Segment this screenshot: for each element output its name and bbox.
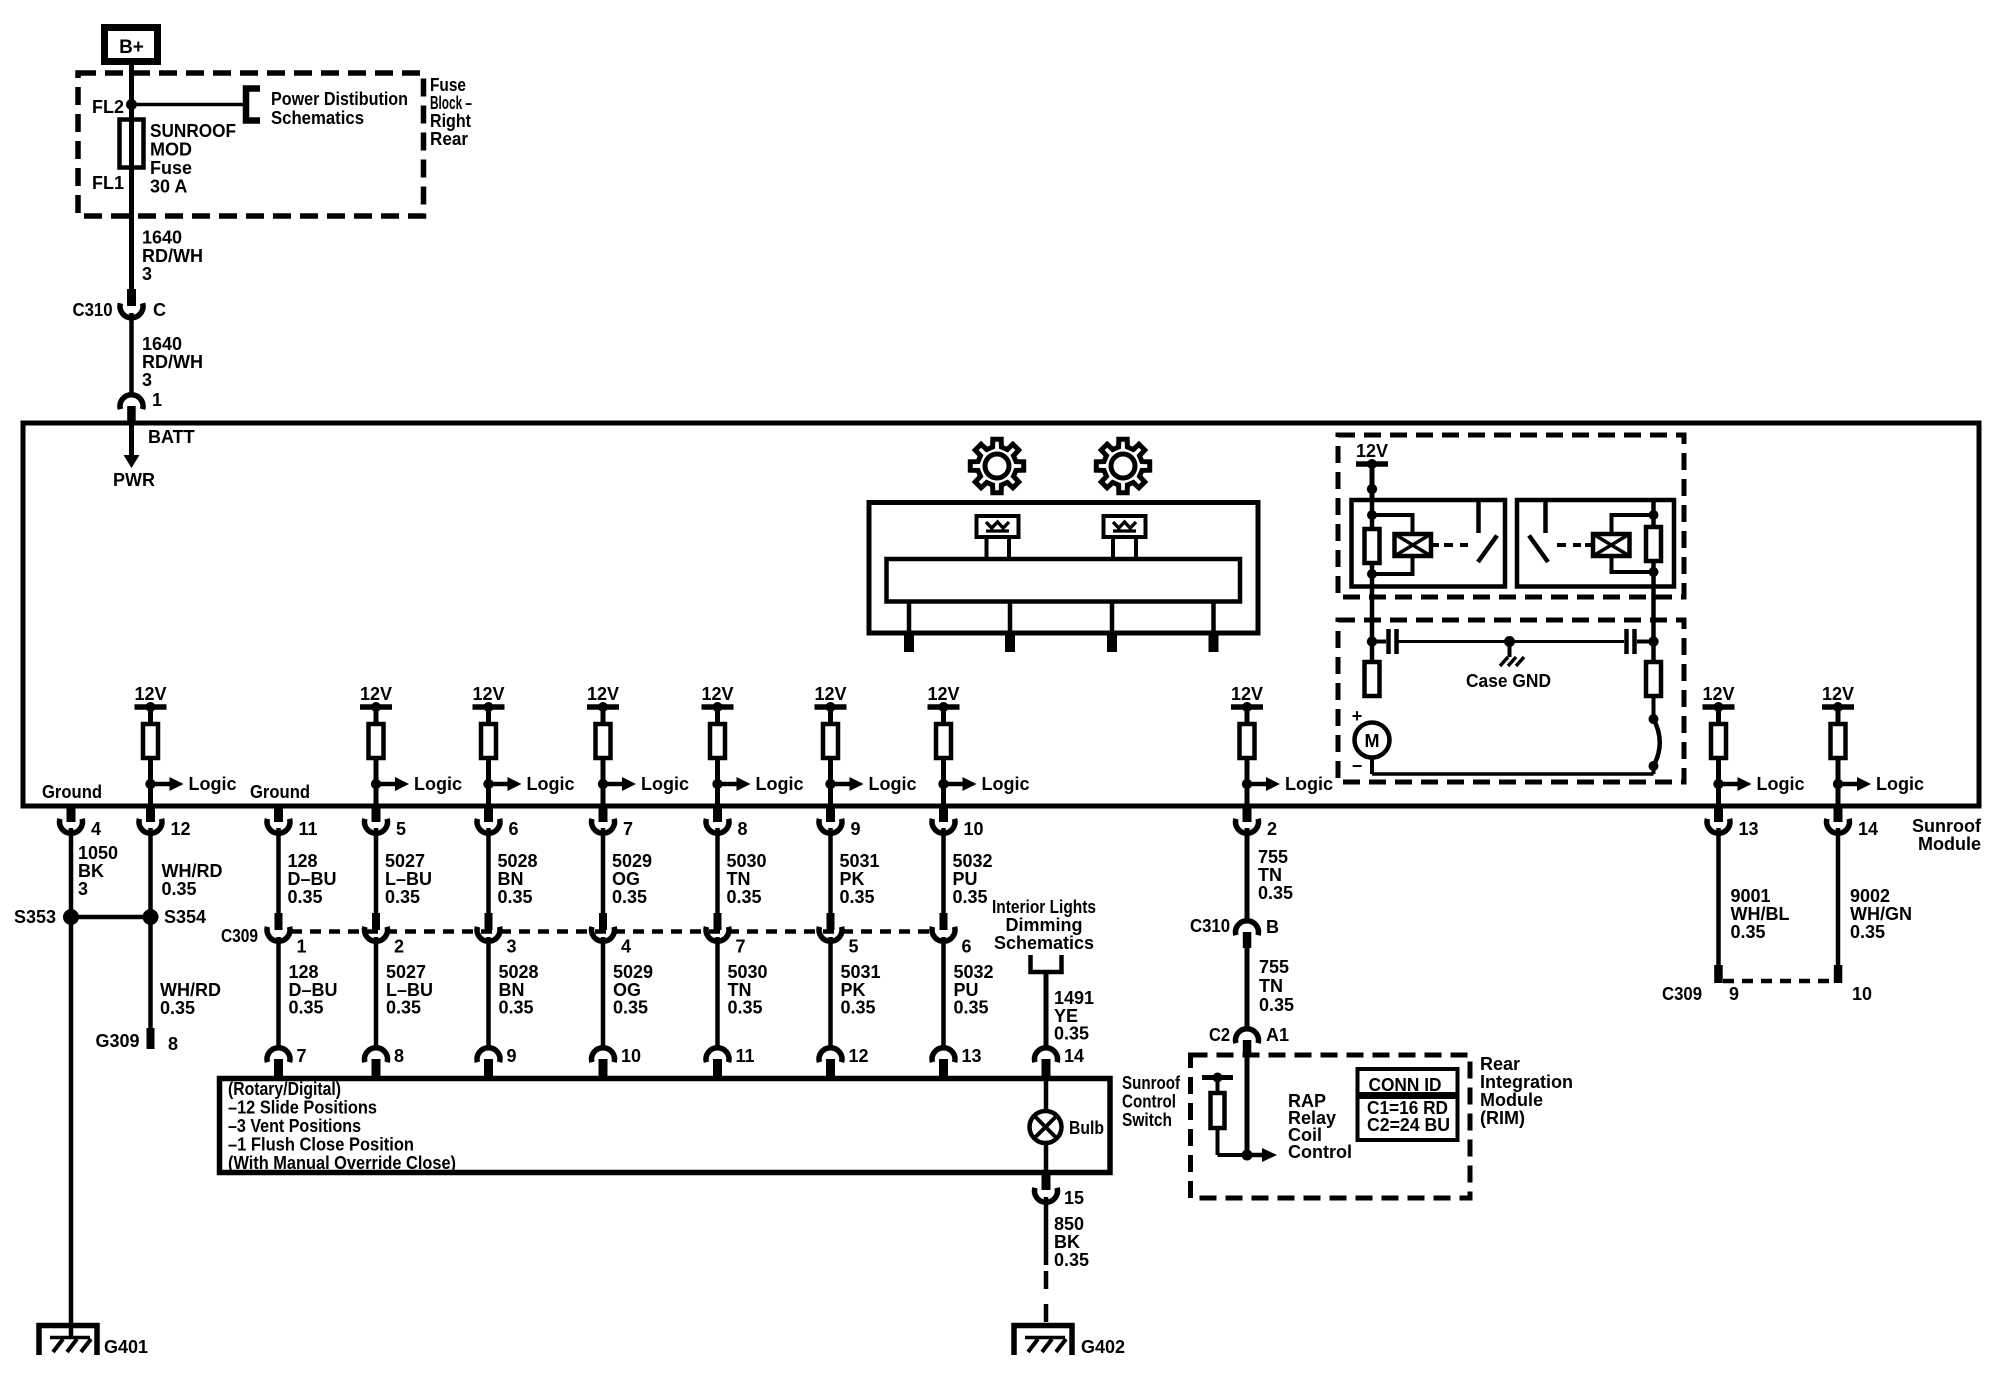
wire 5030 TN 0.35	[715, 828, 720, 914]
svg-text:12V: 12V	[1702, 684, 1734, 704]
motor return wire	[1372, 772, 1654, 776]
svg-text:BATT: BATT	[148, 427, 195, 447]
svg-text:4: 4	[621, 937, 631, 957]
svg-text:Logic: Logic	[189, 774, 237, 794]
svg-text:128: 128	[289, 962, 319, 982]
svg-text:BK: BK	[78, 861, 104, 881]
wire 128 D–BU 0.35 lower	[276, 937, 281, 1048]
wire 5032 PU 0.35	[941, 828, 946, 914]
module pin 4	[67, 806, 76, 822]
svg-text:(Rotary/Digital): (Rotary/Digital)	[228, 1079, 341, 1099]
bulb	[1030, 1111, 1062, 1143]
fuse block dashed box	[78, 73, 424, 216]
svg-text:C310: C310	[1190, 916, 1230, 936]
svg-text:Logic: Logic	[527, 774, 575, 794]
wire 128 D–BU 0.35	[276, 828, 281, 914]
svg-text:7: 7	[623, 819, 633, 839]
wire B+ to fuse block	[129, 65, 134, 121]
case ground node	[1504, 636, 1515, 647]
switch pin 10	[592, 1048, 615, 1063]
svg-text:14: 14	[1858, 819, 1878, 839]
wire 755 TN 0.35 lower	[1245, 948, 1250, 1029]
svg-text:0.35: 0.35	[385, 887, 420, 907]
wire to G401	[69, 917, 74, 1338]
sunroof motor assembly box	[869, 503, 1258, 634]
svg-text:Logic: Logic	[1876, 774, 1924, 794]
svg-text:WH/RD: WH/RD	[160, 980, 221, 1000]
svg-text:1050: 1050	[78, 843, 118, 863]
relay K2 coil circuit	[1651, 500, 1656, 587]
svg-text:Logic: Logic	[982, 774, 1030, 794]
svg-text:0.35: 0.35	[840, 887, 875, 907]
svg-text:Logic: Logic	[1757, 774, 1805, 794]
module pin 13	[1714, 806, 1723, 822]
off-page bracket interior lights	[1031, 955, 1062, 972]
svg-text:5032: 5032	[953, 851, 993, 871]
wire WH/RD 0.35 pin12	[148, 828, 153, 917]
svg-text:CONN ID: CONN ID	[1369, 1075, 1442, 1095]
svg-text:Ground: Ground	[250, 782, 310, 802]
wire 5027 L–BU 0.35	[374, 828, 379, 914]
svg-text:6: 6	[509, 819, 519, 839]
module pin 14	[1834, 806, 1843, 822]
relay K1 coil circuit	[1370, 500, 1375, 587]
svg-text:PK: PK	[840, 869, 865, 889]
svg-text:C310: C310	[73, 300, 113, 320]
svg-text:−: −	[1352, 756, 1363, 776]
svg-text:Schematics: Schematics	[994, 933, 1094, 953]
svg-text:TN: TN	[1259, 976, 1283, 996]
splice S354	[143, 909, 159, 925]
svg-text:0.35: 0.35	[612, 887, 647, 907]
connector C309 pin 7	[714, 913, 722, 930]
svg-text:12V: 12V	[472, 684, 504, 704]
svg-text:128: 128	[288, 851, 318, 871]
svg-text:Integration: Integration	[1480, 1072, 1573, 1092]
wire S354 to G309	[148, 917, 153, 1030]
svg-text:–3 Vent Positions: –3 Vent Positions	[228, 1116, 361, 1136]
svg-text:TN: TN	[1258, 865, 1282, 885]
wire 5031 PK 0.35	[828, 828, 833, 914]
svg-text:0.35: 0.35	[162, 879, 197, 899]
svg-text:Logic: Logic	[756, 774, 804, 794]
svg-text:12V: 12V	[360, 684, 392, 704]
wire 850 BK 0.35	[1044, 1197, 1049, 1265]
connector C310 pin B	[1236, 921, 1259, 936]
suppression capacitor left	[1372, 640, 1386, 644]
relay K2 box	[1517, 500, 1674, 587]
svg-text:Right: Right	[430, 111, 471, 131]
motor series resistor left	[1365, 662, 1380, 696]
svg-text:4: 4	[91, 819, 101, 839]
ground lead G309	[147, 1028, 155, 1049]
module pin 12	[146, 806, 155, 822]
svg-text:2: 2	[394, 937, 404, 957]
svg-text:8: 8	[394, 1046, 404, 1066]
svg-text:13: 13	[1739, 819, 1759, 839]
svg-text:–12 Slide Positions: –12 Slide Positions	[228, 1098, 377, 1118]
svg-text:Bulb: Bulb	[1069, 1118, 1104, 1138]
svg-text:C309: C309	[1662, 984, 1702, 1004]
svg-text:C309: C309	[221, 926, 258, 946]
svg-text:5028: 5028	[499, 962, 539, 982]
svg-text:9001: 9001	[1731, 886, 1771, 906]
svg-text:7: 7	[297, 1046, 307, 1066]
svg-text:PU: PU	[953, 869, 978, 889]
module pin 9	[826, 806, 835, 822]
wire 1491 YE 0.35	[1044, 974, 1049, 1048]
svg-text:BK: BK	[1054, 1232, 1080, 1252]
switch pin 12	[819, 1048, 842, 1063]
svg-text:1491: 1491	[1054, 988, 1094, 1008]
gear icon 1	[970, 439, 1023, 492]
svg-text:5032: 5032	[954, 962, 994, 982]
svg-text:8: 8	[168, 1034, 178, 1054]
connector C309 pin 10	[1834, 965, 1843, 983]
svg-text:1640: 1640	[142, 334, 182, 354]
switch pin 8	[365, 1048, 388, 1063]
svg-text:0.35: 0.35	[160, 998, 195, 1018]
assembly legs	[907, 602, 912, 634]
gear icon 2	[1096, 439, 1149, 492]
relay K1 linkage	[1444, 543, 1468, 547]
svg-text:2: 2	[1267, 819, 1277, 839]
motor circuit dashed box	[1338, 620, 1684, 782]
svg-text:12V: 12V	[701, 684, 733, 704]
svg-text:Ground: Ground	[42, 782, 102, 802]
svg-text:SUNROOF: SUNROOF	[150, 121, 236, 141]
Sunroof Control Switch box	[220, 1079, 1111, 1173]
svg-text:0.35: 0.35	[727, 887, 762, 907]
relay K2 coil	[1593, 534, 1630, 556]
wire 755 TN 0.35 upper	[1245, 828, 1250, 921]
svg-text:9002: 9002	[1850, 886, 1890, 906]
ground G401	[39, 1326, 97, 1356]
svg-text:Power Distibution: Power Distibution	[271, 89, 408, 109]
wire 1050 BK 3	[69, 828, 74, 917]
svg-text:RD/WH: RD/WH	[142, 246, 203, 266]
switch pin 7	[267, 1048, 290, 1063]
motor series resistor right	[1651, 587, 1656, 663]
svg-text:0.35: 0.35	[954, 998, 989, 1018]
relay K2 linkage	[1557, 543, 1581, 547]
svg-text:0.35: 0.35	[1259, 995, 1294, 1015]
svg-text:5: 5	[396, 819, 406, 839]
CONN ID table	[1358, 1069, 1458, 1140]
svg-text:RD/WH: RD/WH	[142, 352, 203, 372]
connector C309 pin 6	[940, 913, 948, 930]
wire FL2 to power distribution tap	[132, 103, 246, 107]
svg-text:L–BU: L–BU	[385, 869, 432, 889]
svg-text:12: 12	[171, 819, 191, 839]
svg-text:9: 9	[507, 1046, 517, 1066]
svg-text:–1 Flush Close Position: –1 Flush Close Position	[228, 1135, 414, 1155]
svg-text:12V: 12V	[814, 684, 846, 704]
connector C309 pin 3	[485, 913, 493, 930]
wire 5028 BN 0.35 lower	[486, 937, 491, 1048]
svg-text:BN: BN	[498, 869, 524, 889]
svg-text:10: 10	[964, 819, 984, 839]
wire S353 to S354	[71, 915, 151, 920]
svg-text:0.35: 0.35	[386, 998, 421, 1018]
connector C2 pin A1	[1236, 1029, 1259, 1044]
svg-text:12V: 12V	[1356, 441, 1388, 461]
svg-text:G402: G402	[1081, 1337, 1125, 1357]
module pin 7	[599, 806, 608, 822]
connector C309 pin 9	[1714, 965, 1723, 983]
svg-text:5027: 5027	[385, 851, 425, 871]
svg-text:C2: C2	[1209, 1025, 1230, 1045]
svg-text:13: 13	[962, 1046, 982, 1066]
wire 9002 WH/GN 0.35	[1836, 828, 1841, 966]
svg-text:0.35: 0.35	[499, 998, 534, 1018]
module pin 5	[372, 806, 381, 822]
svg-text:OG: OG	[612, 869, 640, 889]
svg-text:G309: G309	[95, 1031, 139, 1051]
relay assembly dashed box	[1338, 435, 1684, 597]
svg-text:C2=24 BU: C2=24 BU	[1367, 1115, 1450, 1135]
off-page bracket Power Distribution Schematics	[246, 89, 260, 121]
svg-text:0.35: 0.35	[1054, 1024, 1089, 1044]
C309 dashed mating line	[291, 929, 931, 934]
svg-text:0.35: 0.35	[1054, 1250, 1089, 1270]
svg-text:Fuse: Fuse	[150, 158, 192, 178]
svg-text:Module: Module	[1480, 1090, 1543, 1110]
svg-text:0.35: 0.35	[953, 887, 988, 907]
svg-text:S353: S353	[14, 907, 56, 927]
C309 right dashed mating line	[1723, 979, 1834, 984]
svg-text:Case GND: Case GND	[1466, 671, 1551, 691]
wire relay K1 to motor	[1370, 587, 1375, 663]
svg-text:0.35: 0.35	[1850, 922, 1885, 942]
svg-text:0.35: 0.35	[498, 887, 533, 907]
svg-text:Sunroof: Sunroof	[1912, 816, 1982, 836]
svg-text:FL2: FL2	[92, 97, 124, 117]
svg-text:WH/GN: WH/GN	[1850, 904, 1912, 924]
svg-text:S354: S354	[164, 907, 206, 927]
svg-text:12V: 12V	[927, 684, 959, 704]
module pin 11	[274, 806, 283, 822]
svg-text:WH/BL: WH/BL	[1731, 904, 1790, 924]
svg-text:7: 7	[736, 937, 746, 957]
svg-text:1640: 1640	[142, 228, 182, 248]
svg-text:M: M	[1365, 731, 1380, 751]
svg-text:TN: TN	[727, 869, 751, 889]
svg-text:5: 5	[849, 937, 859, 957]
relay K1 box	[1352, 500, 1506, 587]
connector C309 pin 5	[827, 913, 835, 930]
position sensor lamp 1	[977, 516, 1019, 537]
svg-text:3: 3	[142, 264, 152, 284]
wire bulb to pin15	[1044, 1142, 1049, 1173]
svg-text:(RIM): (RIM)	[1480, 1108, 1525, 1128]
switch pin 9	[477, 1048, 500, 1063]
RIM internal RAP circuit	[1245, 1056, 1250, 1155]
fuse FL1 SUNROOF MOD 30A	[129, 105, 134, 290]
slider bar	[887, 559, 1241, 602]
svg-text:12V: 12V	[587, 684, 619, 704]
wire 5031 PK 0.35 lower	[828, 937, 833, 1048]
wire pin14 to bulb	[1044, 1076, 1049, 1112]
svg-text:B: B	[1266, 917, 1279, 937]
connector C309 pin 1	[275, 913, 283, 930]
svg-text:Schematics: Schematics	[271, 108, 364, 128]
wire 5028 BN 0.35	[486, 828, 491, 914]
svg-text:0.35: 0.35	[841, 998, 876, 1018]
svg-text:5027: 5027	[386, 962, 426, 982]
module pin 2	[1243, 806, 1252, 822]
svg-text:11: 11	[299, 819, 318, 839]
svg-text:D–BU: D–BU	[288, 869, 337, 889]
svg-text:Module: Module	[1918, 834, 1981, 854]
svg-text:Control: Control	[1122, 1092, 1176, 1112]
svg-text:0.35: 0.35	[728, 998, 763, 1018]
svg-text:WH/RD: WH/RD	[162, 861, 223, 881]
svg-text:Control: Control	[1288, 1142, 1352, 1162]
svg-text:5029: 5029	[613, 962, 653, 982]
ground G402	[1014, 1326, 1072, 1356]
module pin 1 BATT	[120, 395, 143, 410]
svg-text:(With Manual Override Close): (With Manual Override Close)	[228, 1153, 456, 1173]
wire 5030 TN 0.35 lower	[715, 937, 720, 1048]
svg-text:9: 9	[1729, 984, 1739, 1004]
svg-text:5028: 5028	[498, 851, 538, 871]
svg-text:C: C	[153, 300, 166, 320]
thermal protector	[1649, 714, 1659, 724]
svg-text:14: 14	[1064, 1046, 1084, 1066]
RAP Relay Coil Control arrow	[1247, 1153, 1263, 1158]
svg-text:5029: 5029	[612, 851, 652, 871]
svg-text:9: 9	[851, 819, 861, 839]
svg-text:6: 6	[962, 937, 972, 957]
svg-text:11: 11	[736, 1046, 755, 1066]
wire 5027 L–BU 0.35 lower	[374, 937, 379, 1048]
svg-text:B+: B+	[119, 37, 144, 58]
svg-text:MOD: MOD	[150, 140, 192, 160]
relay K1 coil	[1395, 534, 1432, 556]
module pin 6	[484, 806, 493, 822]
svg-text:1: 1	[297, 937, 307, 957]
svg-text:12V: 12V	[134, 684, 166, 704]
splice S353	[63, 909, 79, 925]
svg-text:850: 850	[1054, 1214, 1084, 1234]
wire 5032 PU 0.35 lower	[941, 937, 946, 1048]
svg-text:755: 755	[1259, 957, 1289, 977]
svg-text:Block –: Block –	[430, 93, 472, 113]
svg-text:Rear: Rear	[1480, 1054, 1520, 1074]
svg-text:0.35: 0.35	[289, 998, 324, 1018]
svg-text:755: 755	[1258, 847, 1288, 867]
svg-text:1: 1	[152, 390, 162, 410]
svg-text:10: 10	[621, 1046, 641, 1066]
wire 5029 OG 0.35	[601, 828, 606, 914]
switch pin 13	[932, 1048, 955, 1063]
svg-text:Switch: Switch	[1122, 1110, 1172, 1130]
svg-text:12V: 12V	[1231, 684, 1263, 704]
svg-text:8: 8	[738, 819, 748, 839]
switch pin 14	[1035, 1048, 1058, 1063]
connector C309 pin 4	[599, 913, 607, 930]
relay K2 switch	[1543, 502, 1548, 533]
wire label 1640 RD/WH 3	[129, 313, 134, 393]
Sunroof Module box	[23, 423, 1979, 806]
power node B+	[105, 28, 158, 62]
svg-text:Logic: Logic	[641, 774, 689, 794]
svg-text:5030: 5030	[727, 851, 767, 871]
svg-text:Dimming: Dimming	[1005, 915, 1082, 935]
svg-text:+: +	[1352, 706, 1363, 726]
svg-text:3: 3	[78, 879, 88, 899]
switch pin 11	[706, 1048, 729, 1063]
svg-text:Interior Lights: Interior Lights	[992, 897, 1096, 917]
svg-text:0.35: 0.35	[288, 887, 323, 907]
svg-text:15: 15	[1064, 1188, 1084, 1208]
connector C309 pin 2	[372, 913, 380, 930]
connector C310 pin C	[127, 289, 136, 306]
wire 9001 WH/BL 0.35	[1716, 828, 1721, 966]
svg-text:Logic: Logic	[414, 774, 462, 794]
svg-text:12V: 12V	[1822, 684, 1854, 704]
svg-text:A1: A1	[1266, 1025, 1289, 1045]
svg-text:PWR: PWR	[113, 470, 155, 490]
module pin 10	[939, 806, 948, 822]
svg-text:3: 3	[507, 937, 517, 957]
svg-text:Logic: Logic	[1285, 774, 1333, 794]
svg-text:5031: 5031	[841, 962, 881, 982]
svg-text:5030: 5030	[728, 962, 768, 982]
svg-text:0.35: 0.35	[613, 998, 648, 1018]
svg-text:10: 10	[1852, 984, 1872, 1004]
svg-text:3: 3	[142, 370, 152, 390]
svg-text:5031: 5031	[840, 851, 880, 871]
svg-text:FL1: FL1	[92, 173, 124, 193]
svg-text:30 A: 30 A	[150, 177, 187, 197]
svg-text:Logic: Logic	[869, 774, 917, 794]
svg-text:G401: G401	[104, 1337, 148, 1357]
svg-text:12: 12	[849, 1046, 869, 1066]
svg-text:Rear: Rear	[430, 129, 468, 149]
module pin 8	[713, 806, 722, 822]
svg-text:0.35: 0.35	[1731, 922, 1766, 942]
svg-text:Fuse: Fuse	[430, 75, 466, 95]
svg-text:0.35: 0.35	[1258, 883, 1293, 903]
switch pin 15	[1042, 1173, 1051, 1190]
wire 5029 OG 0.35 lower	[601, 937, 606, 1048]
Rear Integration Module dashed box	[1191, 1055, 1471, 1198]
svg-text:Sunroof: Sunroof	[1122, 1073, 1181, 1093]
suppression capacitor right	[1511, 640, 1624, 643]
position sensor lamp 2	[1104, 516, 1146, 537]
relay K1 switch	[1476, 502, 1481, 533]
